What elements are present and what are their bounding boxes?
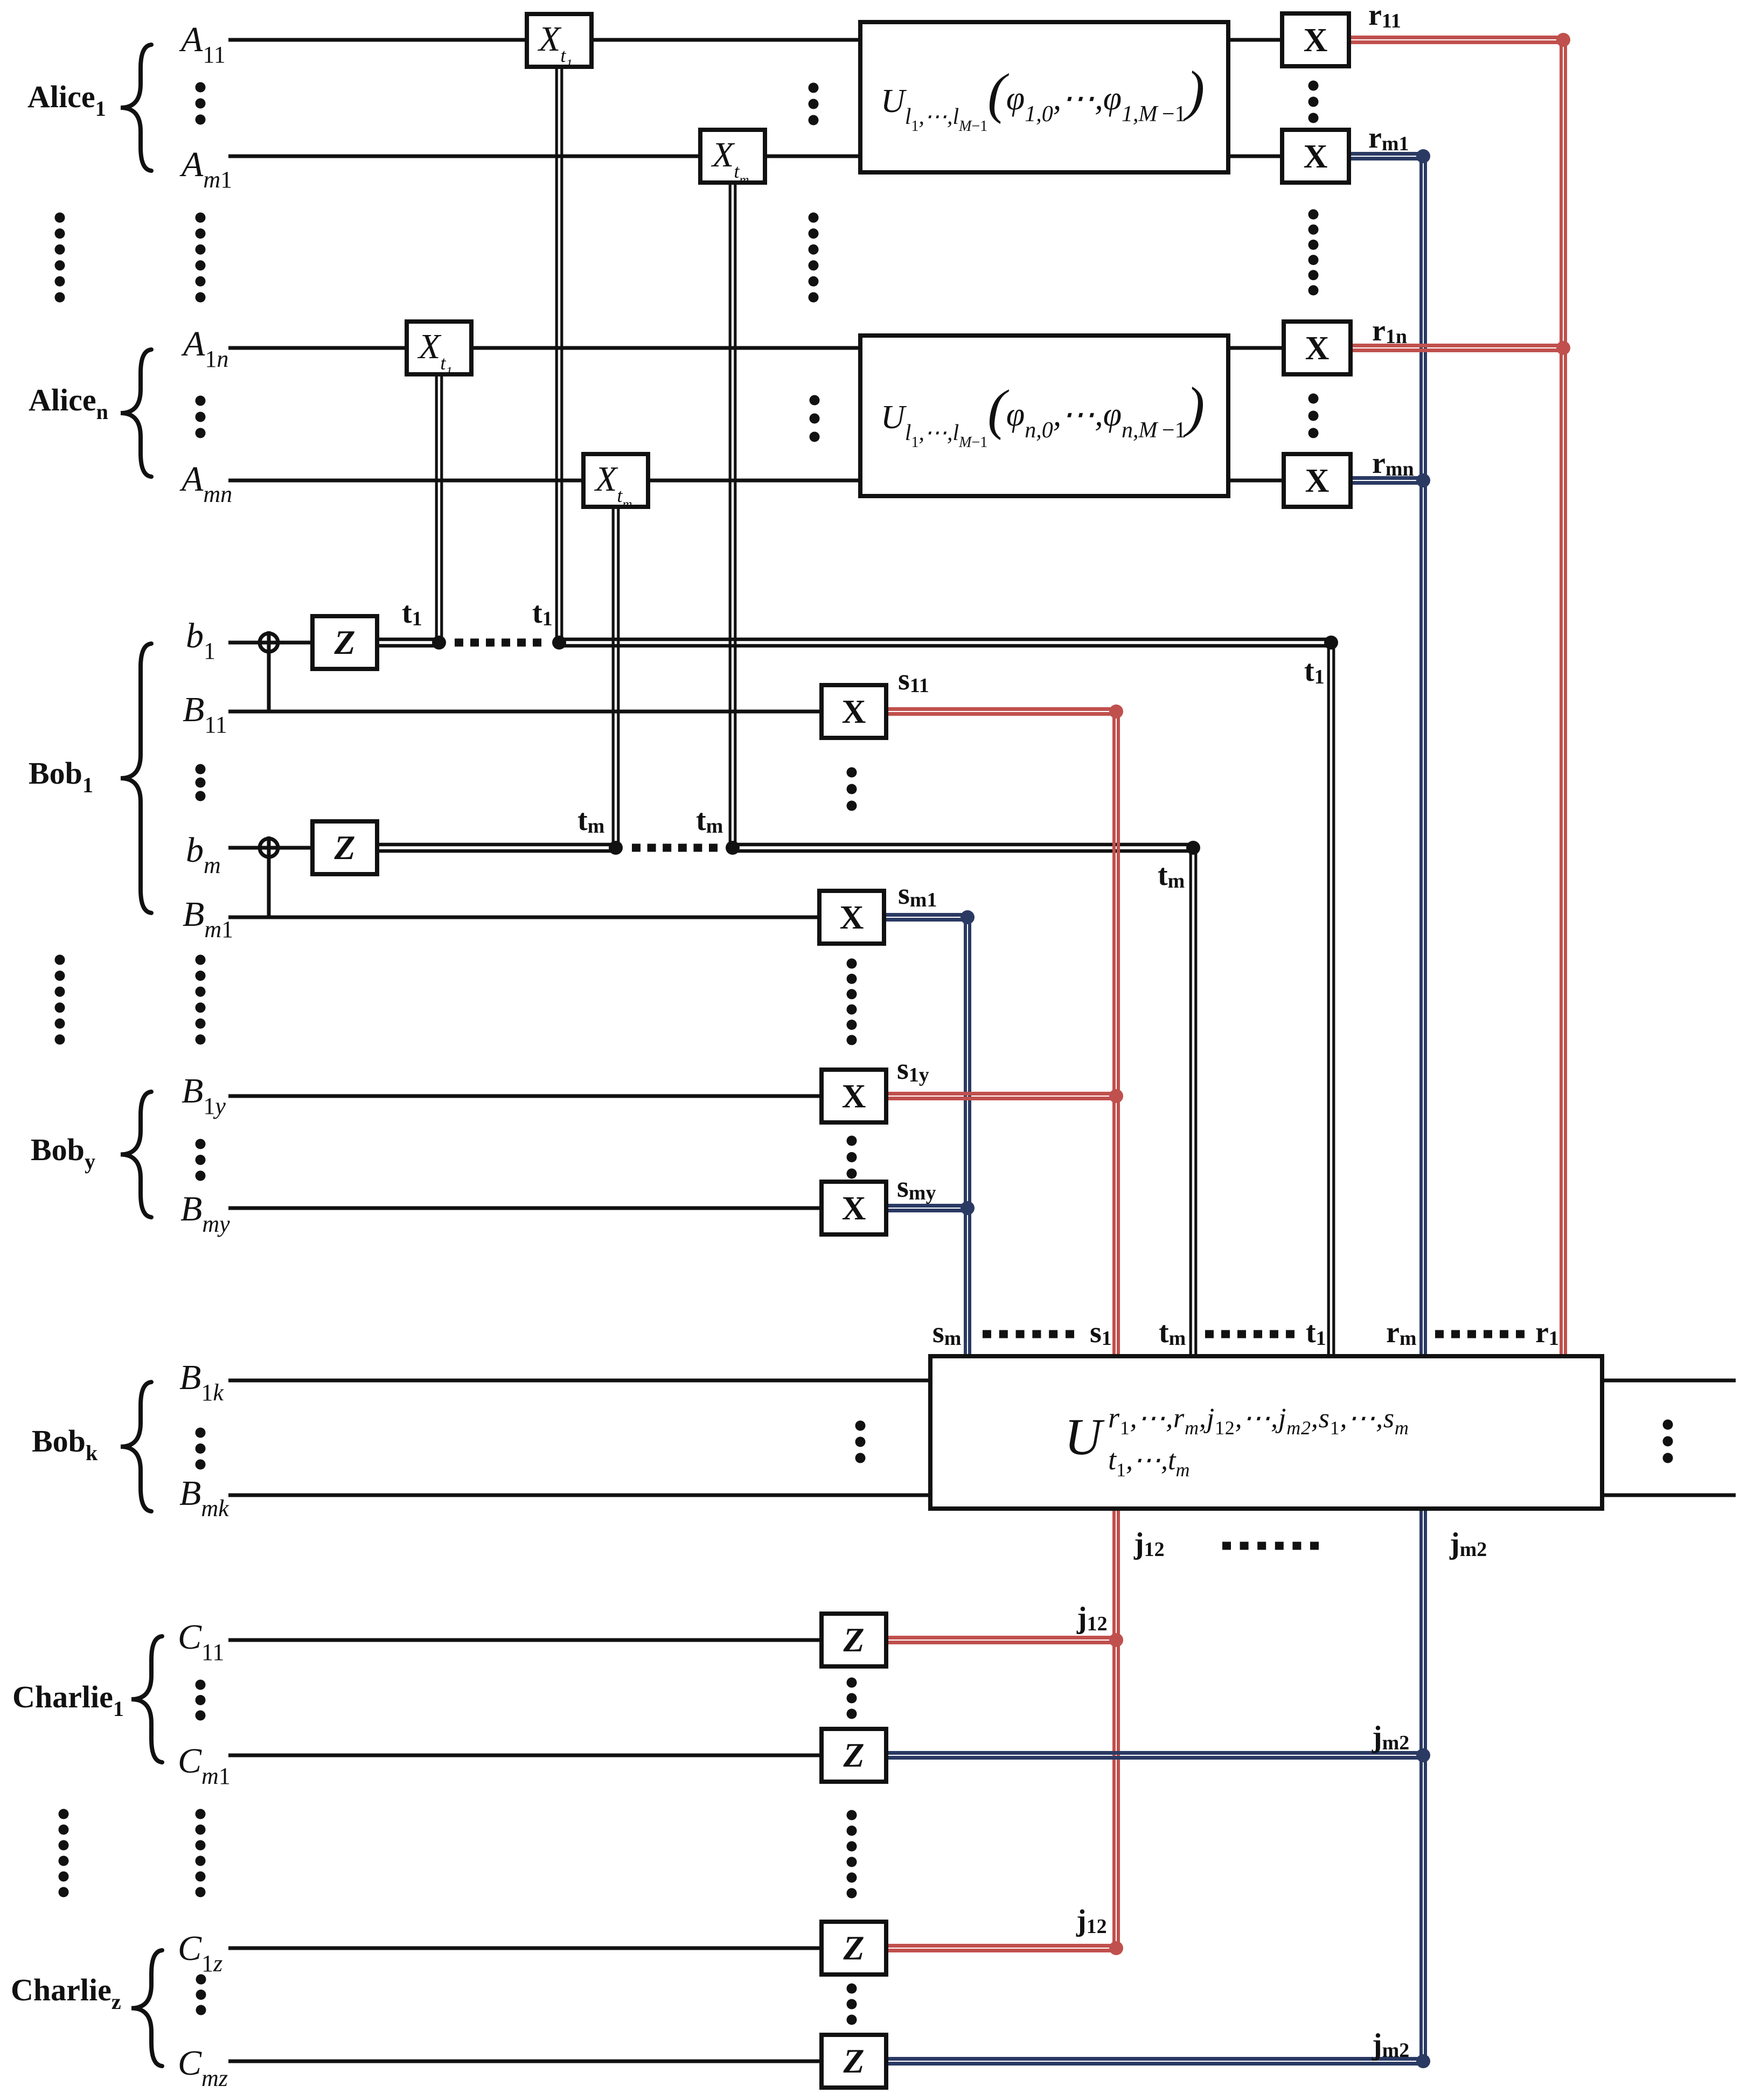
measurement X rmn [1284,454,1351,507]
svg-text:Z: Z [843,1929,864,1967]
measurement X rm1 [1282,130,1349,183]
brace Alicen [121,350,151,477]
node tm on bm (right) [726,841,740,855]
dots Bob group gap label col [196,955,206,965]
classical bm line segment Z to tm node [377,843,616,847]
blue sm vertical into U3 [964,917,967,1356]
dots Alice1 rows left [196,82,206,93]
dots rm1-r1n column [1309,210,1319,220]
svg-text:X: X [842,1190,866,1227]
dots s11-sm1 column [847,768,857,778]
dots Charliez rows left [196,1975,206,1985]
node r1n junction [1556,341,1570,355]
node t1 on b1 (left) [432,636,446,650]
node jm2 at Cmz [1416,2054,1430,2068]
blue jm2 vertical below U3 [1419,1509,1423,2061]
measurement X smy [822,1182,886,1234]
unitary U1 (Alice1 encoding) [860,22,1228,172]
wire A11 input [228,38,860,42]
wire Am1 input [228,155,860,158]
wire B11 [228,710,822,714]
brace Charliez [131,1950,162,2066]
measurement X s11 [822,685,886,738]
brace Charlie1 [131,1636,162,1762]
blue jm2 line from Cmz Z [886,2057,1423,2061]
red r11 line [1349,36,1563,39]
wire C1z [228,1946,822,1950]
measurement X s1y [822,1070,886,1122]
wire B1k input [228,1379,930,1383]
svg-text:X: X [842,1078,866,1115]
node j12 at C11 [1109,1633,1123,1647]
svg-text:Z: Z [843,1736,864,1774]
classical tm vertical into U3 [1189,848,1192,1356]
wire bm [228,846,312,850]
blue jm2 line from Cm1 Z [886,1751,1423,1755]
brace Bob1 [121,644,151,913]
wire Bmk output [1602,1494,1736,1497]
wire Cm1 [228,1754,822,1757]
dots Alicen rows left [196,396,206,406]
brace Boby [121,1092,151,1217]
measurement Z j12 on C11 [822,1614,886,1666]
dots Bobk rows left [196,1428,206,1438]
blue sm1 line [884,913,968,917]
dots tm-t1 above U3 [1205,1330,1214,1338]
svg-text:r1,⋯,rm,j12,⋯,jm2,s1,⋯,sm: r1,⋯,rm,j12,⋯,jm2,s1,⋯,sm [1108,1401,1409,1439]
wire C11 [228,1638,822,1642]
gate X_t1 on A11 [527,14,591,67]
dots Bob group gap margin [55,955,65,965]
dots sm1-s1y column [847,959,857,969]
measurement X r1n [1284,322,1351,374]
wire Amn output to measurement [1228,479,1284,483]
wire Am1 output to measurement [1228,155,1282,158]
measurement Z jm2 on Cm1 [822,1729,886,1782]
classical b1 line segment Z to t1 node [377,638,439,641]
gate Z on b1 [312,616,377,669]
dots Alicen rows right [810,395,820,406]
gate X_t1 on A1n [407,322,471,374]
red s11 line [886,707,1116,711]
blue rm vertical into U3 [1419,156,1423,1356]
CNOT target on b1 [260,633,278,652]
wire Bmy [228,1206,822,1210]
svg-text:U: U [1064,1408,1105,1466]
wire A1n input [228,346,860,350]
wire A1n output to measurement [1228,346,1284,350]
classical t1 vertical from gate X_t1 (A1n) [435,374,438,643]
measurement Z j12 on C1z [822,1922,886,1975]
classical bm line segment to corner [733,843,1193,847]
wire Bm1 [228,916,819,919]
node rmn junction [1416,473,1430,487]
CNOT b1-B11 vertical [267,631,271,711]
dots s1y-smy column [847,1136,857,1146]
svg-text:Z: Z [843,2042,864,2080]
dots r1n-rmn column [1309,394,1319,404]
dots Bobk rows right [1663,1420,1673,1430]
svg-text:Z: Z [333,828,355,867]
red j12 line from C11 Z [886,1636,1116,1639]
blue rm1 line [1349,152,1423,156]
measurement Z jm2 on Cmz [822,2035,886,2088]
svg-text:X: X [1304,138,1328,175]
classical tm vertical from gate X_tm (Am1) [729,183,732,848]
dots Bob1 rows left [196,764,206,775]
svg-text:X: X [840,899,864,936]
red r1n line [1351,344,1563,347]
wire Amn input [228,479,860,483]
brace Alice1 [121,45,151,171]
svg-text:Z: Z [843,1621,864,1659]
gate X_tm on Am1 [700,130,765,183]
node t1 on b1 (right) [552,636,566,650]
dots Charlie group gap margin [59,1809,69,1819]
gate Z on bm [312,821,377,874]
dots j12-jm2 below U3 [1222,1542,1231,1550]
dots r11-rm1 column [1309,81,1319,91]
dots Charlie group gap label col [196,1809,206,1819]
red r1 vertical into U3 [1560,40,1563,1356]
dots Alice group gap right col [809,213,819,223]
red s1 vertical into U3 [1112,711,1116,1356]
dots Alice1 rows right [809,83,819,93]
dots C1z-Cmz Z column [847,1984,857,1994]
dots Alice group gap margin [55,213,65,223]
svg-text:X: X [842,694,866,730]
gate X_tm on Amn [583,454,648,507]
classical tm vertical from gate X_tm (Amn) [612,507,615,848]
node rm1 corner [1416,149,1430,163]
classical b1 dashed continuation [455,639,463,647]
node j12 at C1z [1109,1941,1123,1955]
measurement X r11 [1282,13,1349,66]
node s11 corner [1109,704,1123,718]
node s1y junction [1109,1089,1123,1103]
node smy junction [961,1201,975,1215]
red j12 vertical below U3 [1112,1509,1116,1948]
CNOT bm-Bm1 vertical [267,836,271,917]
node sm1 corner [961,910,975,924]
CNOT target on bm [260,839,278,857]
blue smy line [886,1204,968,1208]
classical bm dashed continuation [632,844,641,852]
svg-text:X: X [1305,330,1330,367]
svg-text:Z: Z [333,623,355,661]
dots rm-r1 above U3 [1435,1330,1444,1338]
dots Alice group gap label col [196,213,206,223]
classical t1 vertical from gate X_t1 (A11) [555,67,558,643]
red s1y line [886,1092,1116,1096]
brace Bobk [121,1382,151,1511]
classical b1 line segment to corner [559,638,1331,641]
dots Boby rows left [196,1139,206,1149]
node jm2 at Cm1 [1416,1748,1430,1762]
unitary U3 (Bobk decoding) [930,1356,1602,1509]
measurement X sm1 [819,891,884,944]
wire B1y [228,1094,822,1098]
wire Cmz [228,2060,822,2063]
node t1 corner [1324,636,1338,650]
dots Charlie1 rows left [196,1680,206,1690]
wire b1 [228,641,312,645]
wire A11 output to measurement [1228,38,1282,42]
svg-text:X: X [1304,22,1328,59]
red j12 line from C1z Z [886,1944,1116,1948]
wire B1k output [1602,1379,1736,1383]
node tm corner [1186,841,1200,855]
dots Cm1-C1z Z column [847,1810,857,1820]
node tm on bm (left) [609,841,623,855]
blue rmn line [1351,476,1423,480]
classical t1 vertical into U3 [1327,643,1330,1356]
svg-text:X: X [1305,463,1330,499]
unitary U2 (Alicen encoding) [860,336,1228,496]
dots C11-Cm1 Z column [847,1678,857,1688]
dots Bobk rows mid [855,1421,866,1431]
dots sm-s1 above U3 [983,1330,991,1338]
node r11 corner [1556,33,1570,47]
wire Bmk input [228,1494,930,1497]
